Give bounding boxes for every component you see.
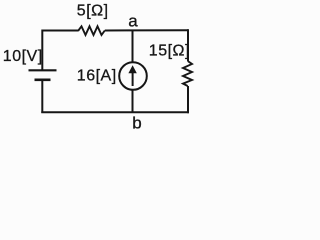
wire: top-left segment of top rail [42, 30, 78, 32]
svg-text:16[A]: 16[A] [77, 67, 117, 84]
wire: top-right segment of top rail [105, 29, 188, 31]
current source I1 circle [119, 62, 147, 90]
svg-text:a: a [128, 12, 138, 31]
current source I1 arrow shaft [132, 71, 134, 86]
wire: branch from node a down to current source [132, 30, 134, 63]
svg-text:5[Ω]: 5[Ω] [77, 2, 109, 19]
svg-text:15[Ω]: 15[Ω] [149, 42, 190, 59]
resistor R2 15[Ω] vertical zigzag [183, 61, 192, 86]
wire: left rail upper (to battery + plate) [41, 30, 43, 70]
wire: right rail lower [187, 86, 189, 113]
svg-text:10[V]: 10[V] [3, 48, 43, 65]
current source I1 arrow head [128, 65, 136, 73]
wire: left rail lower (battery - plate to bottom rail) [41, 80, 43, 113]
wire: bottom rail [41, 111, 189, 113]
wire: branch from current source down to node b [132, 90, 134, 113]
svg-text:b: b [132, 114, 142, 130]
battery V1 short plate (-) [35, 79, 51, 82]
wire: right rail upper [187, 29, 189, 61]
resistor R1 5[Ω] zigzag [78, 26, 105, 35]
battery V1 long plate (+) [29, 69, 57, 71]
